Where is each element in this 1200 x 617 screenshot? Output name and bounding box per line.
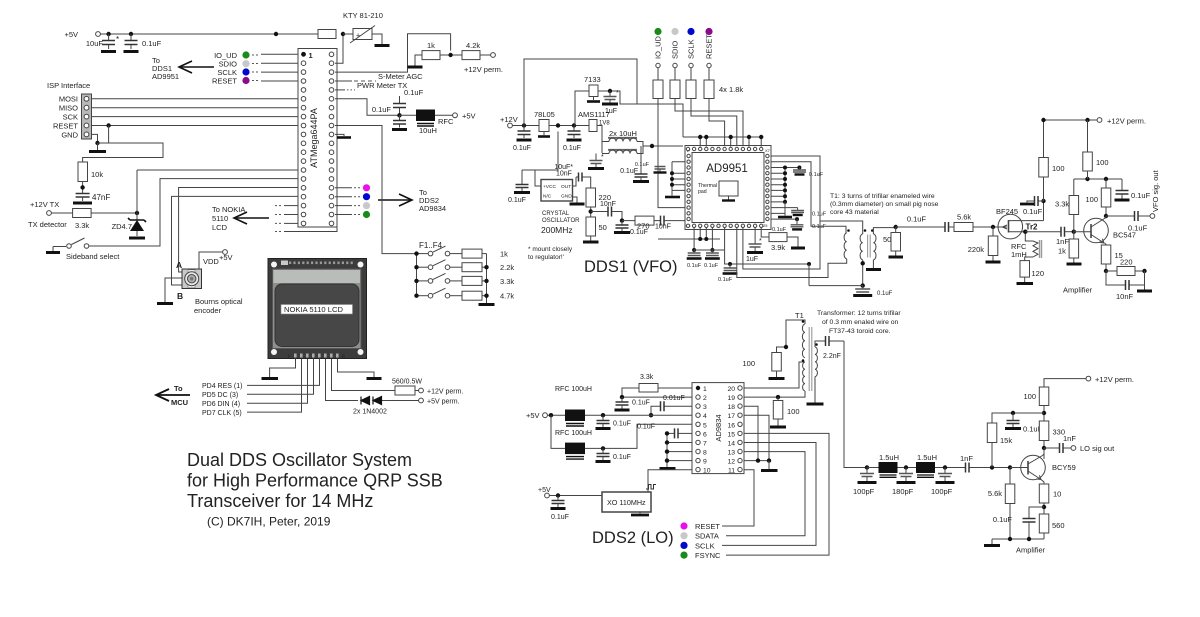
- svg-text:1uF: 1uF: [746, 256, 758, 263]
- svg-text:+5V: +5V: [526, 411, 540, 420]
- svg-text:10: 10: [703, 468, 711, 475]
- svg-text:pad: pad: [698, 189, 707, 195]
- svg-text:XO 110MHz: XO 110MHz: [607, 498, 646, 507]
- node SCLK (to DDS1): [217, 68, 298, 77]
- wire MCU ADC to 1k node: [335, 34, 451, 72]
- junction base node: [1008, 465, 1012, 469]
- ground at MCU right: [335, 134, 351, 137]
- capacitor 0.1uF below +5V node: [372, 105, 407, 130]
- regulator 78L05: [534, 110, 555, 137]
- inductor 10uH b: [602, 146, 643, 154]
- terminal LO sig out: [1071, 444, 1115, 453]
- svg-text:T1: T1: [795, 311, 804, 320]
- svg-text:270: 270: [637, 222, 650, 231]
- svg-text:SDIO: SDIO: [671, 40, 680, 59]
- node SDIO (DDS1 header): [671, 28, 680, 80]
- svg-text:0.1uF: 0.1uF: [508, 197, 526, 204]
- svg-text:100: 100: [1052, 164, 1065, 173]
- svg-text:3.3k: 3.3k: [75, 221, 89, 230]
- svg-text:10uH: 10uH: [419, 126, 437, 135]
- ground below F bank: [479, 303, 495, 306]
- svg-text:100pF: 100pF: [931, 487, 953, 496]
- wire pin18 to gnd bus: [744, 406, 758, 460]
- junction pin3/pin4: [649, 413, 653, 417]
- capacitor 10nF at osc OUT: [556, 171, 591, 189]
- wire encoder B to MCU: [172, 196, 299, 285]
- svg-text:RFC: RFC: [438, 117, 454, 126]
- note T1 trifilar (DDS1): [830, 193, 939, 216]
- AD9951 pins: [686, 147, 769, 227]
- inductor 1.5uH (LPF 2): [916, 453, 965, 477]
- svg-text:100: 100: [787, 407, 800, 416]
- wire 78L05 to AMS1117: [549, 125, 589, 127]
- svg-text:SCLK: SCLK: [687, 39, 696, 59]
- junction 7133 out: [608, 89, 612, 93]
- svg-text:17: 17: [727, 413, 735, 420]
- wire RESET to pin11: [722, 470, 754, 526]
- ground LO amp: [984, 539, 1000, 546]
- wire MOSI to MCU: [92, 98, 299, 100]
- junction LPF mid: [904, 465, 908, 469]
- junction third cap: [728, 262, 732, 266]
- svg-text:RESET: RESET: [53, 122, 78, 131]
- transformer T1 (DDS1) winding 1: [844, 229, 850, 259]
- VDD +5V terminal: [203, 250, 233, 266]
- svg-text:10nF: 10nF: [655, 224, 671, 231]
- capacitor 1nF series (LPF out): [960, 454, 1022, 473]
- svg-text:0.1uF: 0.1uF: [812, 212, 827, 218]
- capacitor 0.1uF bottom b: [704, 250, 720, 269]
- resistor 50 (osc): [583, 217, 607, 242]
- svg-text:1.5uH: 1.5uH: [917, 453, 937, 462]
- junctions F bus right: [484, 265, 488, 298]
- capacitor 180pF (LPF): [892, 468, 916, 497]
- svg-text:X7: X7: [765, 148, 771, 153]
- wire LCD pin4 (DC): [247, 359, 314, 395]
- svg-text:PD4 RES (1): PD4 RES (1): [202, 383, 242, 390]
- svg-text:+12V perm.: +12V perm.: [427, 389, 463, 396]
- svg-text:16: 16: [727, 422, 735, 429]
- svg-text:15: 15: [727, 431, 735, 438]
- resistor 5.6k (LO base): [988, 468, 1015, 540]
- svg-text:+12V perm.: +12V perm.: [1095, 375, 1134, 384]
- wire winding1 bottom return: [737, 228, 847, 278]
- svg-text:1uF: 1uF: [605, 108, 617, 115]
- note transformer 12 turns: [817, 310, 901, 335]
- net PD6 to NOKIA (dashed): [275, 222, 298, 224]
- svg-text:2.2nF: 2.2nF: [823, 353, 841, 360]
- svg-text:ATMega644PA: ATMega644PA: [309, 108, 319, 168]
- svg-text:To: To: [174, 384, 183, 393]
- svg-text:15k: 15k: [1000, 436, 1012, 445]
- junction emitter node: [1104, 269, 1108, 273]
- svg-text:RESET: RESET: [705, 34, 714, 59]
- svg-text:+5V: +5V: [462, 112, 476, 121]
- resistor 100 (LO collector supply): [1023, 387, 1048, 421]
- junction source node: [1023, 230, 1027, 234]
- svg-text:NOKIA 5110 LCD: NOKIA 5110 LCD: [284, 305, 343, 314]
- wire VDD stub into top pin: [748, 137, 750, 147]
- wire 1k left to ground: [415, 55, 422, 66]
- wire crystal osc VCC: [535, 132, 558, 187]
- svg-text:220k: 220k: [968, 245, 985, 254]
- wire pin17 to gnd bus: [744, 415, 769, 460]
- junction bypass node: [861, 283, 865, 287]
- svg-text:FT37-43 toroid core.: FT37-43 toroid core.: [829, 328, 891, 335]
- svg-text:GND: GND: [61, 131, 78, 140]
- svg-text:Sideband select: Sideband select: [66, 252, 120, 261]
- svg-text:GND: GND: [561, 194, 572, 200]
- svg-text:9: 9: [703, 459, 707, 466]
- junctions pin12 gnd: [756, 458, 771, 462]
- transformer T1 (DDS1) core: [868, 235, 871, 258]
- wire FSYNC to pin15: [726, 433, 829, 555]
- junction LPF out: [943, 465, 947, 469]
- svg-text:Transformer: 12 turns trifilar: Transformer: 12 turns trifilar: [817, 310, 901, 317]
- resistor 3.3k (bias hi): [1055, 179, 1079, 232]
- junction 10k/47nF: [80, 185, 84, 189]
- svg-text:AD9951: AD9951: [152, 72, 179, 81]
- svg-text:0.1uF: 0.1uF: [907, 215, 927, 224]
- wire SDATA to pin13: [726, 452, 805, 536]
- ground at osc GND: [570, 197, 585, 204]
- svg-text:0.1uF: 0.1uF: [877, 291, 893, 297]
- svg-text:560: 560: [1052, 521, 1065, 530]
- junction sense node: [341, 32, 345, 36]
- node RESET (to DDS1): [212, 77, 298, 86]
- svg-text:560/0.5W: 560/0.5W: [392, 379, 422, 386]
- ground at LCD backlight: [367, 377, 382, 380]
- junction RFC2 out: [601, 446, 605, 450]
- junctions ground rail: [1008, 537, 1031, 541]
- svg-text:ISP Interface: ISP Interface: [47, 81, 90, 90]
- wire VDD stub into top pin: [760, 137, 762, 147]
- capacitor 0.1uF at T1 center: [853, 286, 892, 297]
- resistor 330: [1039, 421, 1065, 459]
- wire F1..F4 left bus: [416, 254, 418, 296]
- wire T1 winding2 top feed: [820, 221, 863, 234]
- wire +12V TX to 3.3k: [51, 212, 72, 214]
- svg-text:KTY 81-210: KTY 81-210: [343, 11, 383, 20]
- ground at winding3: [866, 268, 881, 271]
- svg-text:RESET: RESET: [695, 522, 720, 531]
- capacitor 0.1uF at AVDD: [620, 146, 649, 182]
- module NOKIA 5110 LCD: [268, 259, 367, 362]
- junction +5V rail right: [274, 32, 278, 36]
- junction 1k/4.2k: [448, 53, 452, 57]
- svg-text:of 0.3 mm enaled wire on: of 0.3 mm enaled wire on: [822, 319, 899, 326]
- capacitor 0.1uF at osc: [508, 170, 535, 204]
- svg-text:Transceiver for 14 MHz: Transceiver for 14 MHz: [187, 491, 373, 511]
- capacitor 0.1uF at +5V rail: [124, 34, 162, 52]
- svg-text:(C) DK7IH, Peter, 2019: (C) DK7IH, Peter, 2019: [207, 515, 331, 529]
- svg-text:100: 100: [1023, 392, 1036, 401]
- svg-text:MCU: MCU: [171, 398, 188, 407]
- net PWR Meter TX: [335, 81, 407, 90]
- svg-text:2.2k: 2.2k: [500, 263, 514, 272]
- wire VDD stub into top pin: [730, 137, 732, 147]
- resistor 220 (osc load): [586, 188, 611, 207]
- transformer T1 (DDS1) winding 3: [871, 229, 876, 260]
- junction pin2 node: [620, 395, 624, 399]
- svg-text:1k: 1k: [1058, 247, 1066, 256]
- wire pin10 to XO: [648, 470, 692, 492]
- wire MISO to MCU: [92, 107, 299, 109]
- capacitor 0.1uF above +5V node: [393, 88, 424, 115]
- svg-text:1nF: 1nF: [960, 454, 973, 463]
- wire VDD stub into top pin: [705, 137, 707, 147]
- Bourns optical encoder: [176, 260, 243, 315]
- wire LCD pin7 to 560 resistor: [332, 359, 396, 391]
- svg-text:1k: 1k: [500, 250, 508, 259]
- resistor 220 (bypass): [1106, 258, 1145, 276]
- svg-text:100: 100: [742, 359, 755, 368]
- junction 5V node 2: [572, 123, 576, 127]
- capacitor 10nF to chip clk: [654, 216, 685, 231]
- svg-text:0.1uF: 0.1uF: [551, 514, 569, 521]
- resistor 1k: [422, 41, 440, 60]
- svg-text:4x 1.8k: 4x 1.8k: [719, 85, 743, 94]
- svg-text:RESET: RESET: [212, 77, 237, 86]
- svg-text:13: 13: [727, 450, 735, 457]
- wire 10k to 47nF: [82, 182, 84, 194]
- svg-text:(0.3mm diameter) on small pig: (0.3mm diameter) on small pig nose: [830, 201, 939, 208]
- svg-text:A: A: [176, 260, 182, 270]
- wire +12V (LO amp): [1044, 379, 1086, 387]
- label To MCU with arrow: [156, 384, 190, 407]
- junction +5V rail at 0.1uF: [129, 32, 133, 36]
- svg-text:TX detector: TX detector: [28, 220, 67, 229]
- resistor 100 (lower): [770, 397, 800, 427]
- svg-text:10k: 10k: [91, 170, 103, 179]
- node RESET dot (to DDS2): [335, 184, 370, 191]
- IC U2 AD9951: [685, 146, 771, 230]
- resistor 1.8k (IO_UD): [653, 80, 663, 99]
- resistor (KTY series): [318, 30, 336, 39]
- switch F4: [417, 288, 450, 298]
- wire pin12 gnd: [744, 460, 769, 462]
- junction rail b: [1085, 118, 1089, 122]
- wire SCK to MCU: [92, 116, 299, 118]
- zener diode ZD4.7: [112, 213, 146, 238]
- junction 5V node: [556, 123, 560, 127]
- svg-text:DDS1 (VFO): DDS1 (VFO): [584, 258, 678, 276]
- junction GND node: [95, 141, 99, 145]
- resistor 1k (F1): [450, 249, 508, 259]
- capacitor 0.1uF bottom a: [687, 250, 702, 269]
- junction BC547 base node: [1072, 230, 1076, 234]
- label To NOKIA 5110 LCD with arrow: [212, 205, 269, 232]
- net PD4 to NOKIA (dashed): [275, 205, 298, 207]
- +12V TX terminal: [28, 200, 67, 229]
- svg-text:+5V: +5V: [64, 30, 78, 39]
- svg-text:3.3k: 3.3k: [500, 277, 514, 286]
- resistor 100 (upper): [742, 353, 784, 379]
- resistor 100 (collector): [1085, 179, 1110, 216]
- junctions ground bus: [665, 431, 669, 463]
- wire AMS1117 to inductors: [597, 126, 602, 154]
- capacitor 100pF (LPF 1): [853, 468, 877, 497]
- svg-text:LCD: LCD: [212, 223, 228, 232]
- svg-text:*: *: [616, 90, 619, 97]
- regulator 7133: [584, 75, 601, 102]
- wire GND pin down: [92, 126, 109, 144]
- svg-text:0.1uF: 0.1uF: [1023, 207, 1043, 216]
- wire encoder ground leg: [165, 278, 182, 302]
- wire T1 top to 100: [777, 320, 806, 353]
- node SCLK (DDS2): [680, 541, 714, 550]
- svg-text:ZD4.7: ZD4.7: [112, 222, 132, 231]
- wire VDD stub into top pin: [699, 137, 701, 147]
- svg-text:5: 5: [703, 422, 707, 429]
- wire LCD pin3 (DIN): [247, 359, 308, 404]
- svg-text:+12V perm.: +12V perm.: [464, 65, 503, 74]
- svg-text:+12V perm.: +12V perm.: [1107, 117, 1146, 126]
- junction clk input node: [620, 218, 624, 222]
- resistor 100 (drain): [1039, 120, 1065, 201]
- oscillator XO 110MHz: [602, 492, 651, 515]
- wire AD9951 right pin stubs: [771, 168, 799, 220]
- resistor 1.8k (SDIO): [670, 80, 680, 99]
- wire DDS2 left ground bus: [666, 433, 668, 467]
- resistor 15k: [987, 423, 1012, 468]
- +5V terminal at RFC: [435, 112, 476, 121]
- svg-text:T1: 3 turns of trifilar enamel: T1: 3 turns of trifilar enameled wire: [830, 193, 935, 200]
- svg-text:10uF: 10uF: [86, 39, 104, 48]
- title block: [187, 450, 443, 529]
- svg-text:+5V: +5V: [538, 487, 551, 494]
- wire emitter ground rail: [992, 538, 1044, 540]
- svg-text:0.1uF: 0.1uF: [718, 277, 733, 283]
- wire pin19 to T1 bottom: [744, 391, 805, 397]
- resistor 5.6k (gate): [954, 213, 998, 232]
- wire 3.3k to ZD4.7 node: [91, 212, 137, 214]
- capacitor 1uF under chip: [746, 228, 763, 263]
- svg-text:2: 2: [703, 395, 707, 402]
- transistor BCY59: [1010, 448, 1076, 484]
- svg-text:78L05: 78L05: [534, 110, 555, 119]
- wire LCD pin2 (CLK): [247, 359, 302, 413]
- junction XO supply: [556, 493, 560, 497]
- wire MCU to F1..F4 bus: [335, 126, 417, 254]
- wire winding2 bottom to bypass: [862, 260, 864, 286]
- junction RFC1 out: [601, 413, 605, 417]
- wire +5V rail: [100, 33, 318, 35]
- capacitor 0.1uF series at pin6: [637, 424, 692, 439]
- inductor 10uH a: [602, 129, 643, 146]
- sensor KTY 81-210: [343, 11, 390, 46]
- svg-text:5.6k: 5.6k: [957, 213, 971, 222]
- svg-text:CRYSTAL: CRYSTAL: [542, 211, 570, 217]
- wire bias rail: [1074, 178, 1122, 180]
- capacitor 0.1uF (emitter bypass LO): [993, 507, 1044, 539]
- junction 220/10nF right: [1142, 269, 1146, 273]
- ground below LCD pin1: [262, 377, 279, 380]
- capacitor 0.01uF at pin3: [651, 395, 692, 415]
- capacitor 0.1uF at XO: [551, 496, 569, 522]
- resistor 10 (emitter): [1039, 484, 1061, 514]
- svg-text:SDATA: SDATA: [695, 532, 719, 541]
- IC U3 AD9834: [692, 383, 744, 475]
- junction collector rail: [1042, 411, 1046, 415]
- svg-text:+5V: +5V: [219, 253, 233, 262]
- svg-text:0.1uF: 0.1uF: [637, 424, 655, 431]
- transformer T1 (DDS1) winding 2: [860, 229, 866, 260]
- junction +5V RFC node: [397, 113, 401, 117]
- svg-text:VDD: VDD: [203, 257, 219, 266]
- net S-Meter AGC: [335, 72, 423, 81]
- junction LPF in: [865, 465, 869, 469]
- junction bias rail b: [1104, 177, 1108, 181]
- wire +12V to 78L05: [512, 125, 539, 127]
- svg-text:SCLK: SCLK: [695, 541, 715, 550]
- junctions right bus: [783, 166, 787, 204]
- label To DDS2 AD9834 with arrow: [378, 188, 446, 213]
- svg-text:VFO sig. out: VFO sig. out: [1151, 169, 1160, 212]
- capacitor 0.1uF left of chip: [635, 162, 667, 173]
- junction winding2 bottom: [861, 261, 865, 265]
- +12V perm terminal (top): [464, 53, 503, 74]
- node FSYNC (DDS2): [680, 551, 721, 560]
- switch F3: [417, 273, 450, 283]
- junctions bottom: [692, 237, 714, 252]
- junction +5V split: [549, 413, 553, 417]
- labels PD4..PD7: [202, 383, 242, 417]
- wire 7133 output: [598, 91, 683, 137]
- capacitor 0.1uF at +12V input: [513, 126, 532, 153]
- wire encoder VDD: [199, 252, 223, 269]
- svg-text:+12V TX: +12V TX: [30, 200, 59, 209]
- wire sideband select to MCU: [89, 179, 298, 246]
- svg-text:0.1uF: 0.1uF: [632, 400, 650, 407]
- svg-text:RFC 100uH: RFC 100uH: [555, 386, 592, 393]
- junction collector node: [1104, 214, 1108, 218]
- junction rail: [1041, 118, 1045, 122]
- capacitor 100pF (LPF 3): [931, 468, 955, 497]
- +12V perm terminal (LCD): [419, 388, 464, 395]
- svg-text:100pF: 100pF: [853, 487, 875, 496]
- transformer T1 (DDS2) primary: [802, 320, 805, 391]
- resistor 4.2k: [462, 41, 480, 60]
- wire winding3 top to output node: [873, 228, 895, 234]
- capacitor 10nF (emitter bypass): [1106, 271, 1145, 301]
- node SCLK dot (to DDS2): [335, 202, 370, 209]
- svg-text:0.1uF: 0.1uF: [563, 145, 581, 152]
- capacitor 0.1uF at 5V node: [563, 126, 582, 153]
- inductor RFC 1mH (source): [1011, 232, 1042, 261]
- wire LCD pin6 to diodes: [326, 359, 359, 401]
- wire F1..F4 right bus: [486, 254, 488, 303]
- resistor 560/0.5W: [392, 379, 422, 396]
- svg-text:MISO: MISO: [59, 104, 78, 113]
- wire +5V to RFC1: [547, 414, 565, 416]
- svg-text:1k: 1k: [427, 41, 435, 50]
- wire bottom pin to 3.9k: [761, 228, 769, 237]
- diode D2 1N4002: [353, 397, 387, 416]
- capacitor 0.1uF at RFC1: [596, 415, 631, 428]
- svg-text:BCY59: BCY59: [1052, 463, 1076, 472]
- svg-text:4: 4: [703, 413, 707, 420]
- svg-text:AD9834: AD9834: [714, 414, 723, 441]
- wire chip bottom caps row: [658, 238, 720, 240]
- node RESET (DDS1 header): [705, 28, 714, 80]
- wire winding3 bottom to ground: [872, 260, 874, 268]
- svg-text:DDS2 (LO): DDS2 (LO): [592, 529, 674, 547]
- wire to third bottom cap: [725, 250, 809, 264]
- wire LCD pin5 (RES): [247, 359, 320, 386]
- junction T1 top: [784, 345, 788, 349]
- wire SCLK to chip: [691, 99, 737, 146]
